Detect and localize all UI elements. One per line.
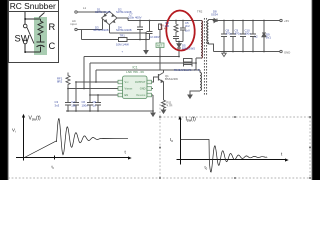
svg-text:R6 BAV21WS - 7 - F: R6 BAV21WS - 7 - F (174, 68, 200, 72)
svg-text:1u: 1u (93, 103, 97, 107)
svg-text:RC Snubber: RC Snubber (10, 1, 56, 11)
svg-text:GND: GND (284, 51, 290, 55)
svg-text:S07M-GS08: S07M-GS08 (93, 28, 109, 32)
svg-text:S07M-GS08: S07M-GS08 (95, 10, 111, 14)
svg-text:+5V: +5V (284, 19, 289, 23)
svg-text:LNK 706 - 09: LNK 706 - 09 (126, 70, 144, 74)
svg-text:IC1: IC1 (133, 66, 138, 70)
svg-text:input: input (71, 22, 77, 26)
svg-text:NET: NET (157, 44, 163, 48)
svg-text:10u: 10u (71, 103, 76, 107)
svg-text:BAV21WS: BAV21WS (182, 46, 195, 50)
svg-text:OUTPUT: OUTPUT (135, 80, 146, 84)
svg-text:2n2: 2n2 (185, 24, 190, 28)
svg-text:4.7R: 4.7R (167, 104, 173, 108)
svg-text:R: R (49, 22, 56, 32)
svg-text:SW: SW (15, 34, 30, 44)
svg-text:100n: 100n (82, 103, 89, 107)
svg-text:5V1: 5V1 (266, 35, 271, 39)
svg-text:3n3: 3n3 (55, 103, 60, 107)
svg-text:06 4R: 06 4R (160, 26, 167, 30)
svg-text:1kV: 1kV (185, 29, 190, 33)
svg-text:GND: GND (140, 87, 146, 91)
svg-text:C2 400V: C2 400V (150, 35, 160, 39)
svg-text:470u: 470u (235, 31, 242, 35)
svg-text:TR1: TR1 (120, 34, 126, 38)
svg-text:C: C (49, 41, 56, 51)
svg-text:100n 400V: 100n 400V (128, 15, 142, 19)
svg-text:L2: L2 (255, 35, 259, 39)
svg-text:10M 1/4W: 10M 1/4W (116, 43, 129, 47)
svg-text:100n: 100n (245, 31, 252, 35)
svg-text:TR2: TR2 (197, 10, 203, 14)
svg-text:BSS123W: BSS123W (165, 77, 178, 81)
svg-text:470u: 470u (226, 31, 233, 35)
svg-text:8R2: 8R2 (57, 80, 63, 84)
svg-text:SS34: SS34 (211, 13, 218, 17)
svg-text:L1: L1 (83, 6, 87, 10)
svg-text:EN: EN (125, 93, 129, 97)
svg-text:S07M-GS08: S07M-GS08 (116, 28, 132, 32)
